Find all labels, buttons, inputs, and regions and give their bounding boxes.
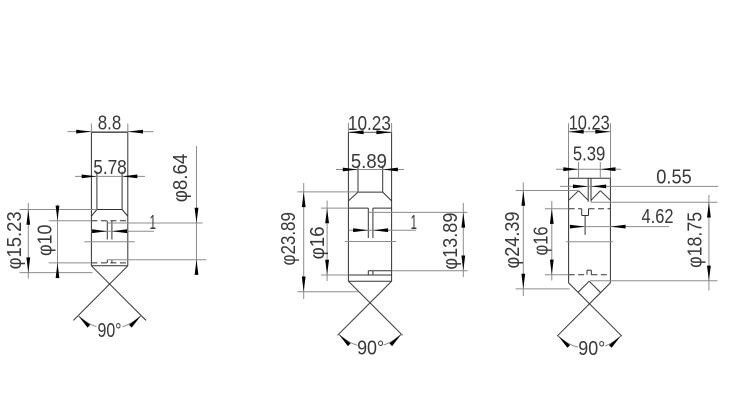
fig3 dim phi18.75 text	[685, 212, 707, 268]
fig3 dim phi16 arrows	[550, 209, 554, 224]
fig2 internal bottom line	[348, 274, 391, 276]
fig2 mid line	[345, 241, 396, 243]
svg-text:90°: 90°	[578, 338, 605, 360]
fig1 dim 90 arrows	[78, 316, 90, 328]
svg-text:φ16: φ16	[530, 227, 552, 256]
fig3 dim 10.23 arrows	[569, 130, 584, 134]
fig1 thread inner lines	[96, 172, 98, 210]
fig3 dim phi18.75 line	[708, 195, 710, 291]
fig3 mid line	[566, 241, 613, 243]
svg-text:φ23.89: φ23.89	[278, 212, 300, 265]
fig3 center bore line	[584, 216, 586, 235]
fig2 internal top line	[348, 207, 368, 209]
fig3 dim phi18.75 arrows	[707, 202, 711, 217]
fig3 dim 90 arrows	[558, 336, 570, 348]
fig3 cone notch	[578, 281, 589, 292]
fig2 dim 90 arrows	[339, 334, 351, 346]
fig2 cone lines	[348, 281, 402, 335]
fig1 dim phi10 line	[57, 205, 59, 278]
svg-text:5.78: 5.78	[93, 157, 127, 179]
fig3 dim 90 arc	[558, 336, 621, 349]
fig1 dim phi10 ext	[49, 220, 92, 222]
fig2 dim 90 arc	[339, 334, 402, 347]
fig3 slot lines	[587, 178, 589, 202]
svg-text:φ8.64: φ8.64	[170, 154, 192, 203]
svg-text:φ13.89: φ13.89	[440, 213, 462, 270]
svg-text:5.39: 5.39	[573, 144, 606, 166]
fig2 thread inner lines	[357, 166, 359, 193]
fig2 dim 90 textbg	[358, 338, 384, 356]
svg-text:φ18.75: φ18.75	[685, 212, 707, 268]
fig1 dim 8.8 arrows	[76, 130, 91, 134]
svg-text:φ10: φ10	[35, 225, 57, 256]
fig3 body outline	[569, 177, 611, 179]
fig3 dim 5.39 line	[556, 168, 621, 170]
fig2 dim 5.89 arrows	[343, 168, 358, 172]
fig2 dim phi13.89 ext	[392, 270, 468, 272]
svg-text:5.89: 5.89	[351, 151, 387, 173]
fig2 dim phi13.89 arrows	[461, 212, 465, 227]
fig1 bore step	[106, 260, 108, 263]
fig3 dim phi16 line	[551, 201, 553, 281]
svg-text:1: 1	[411, 212, 418, 234]
fig2 dim phi23.89 ext	[297, 191, 358, 193]
fig1 dim 5.78 line	[75, 175, 145, 177]
fig3 dim phi18.75 ext	[591, 201, 718, 203]
fig2 dim 1 arrows	[353, 228, 368, 232]
fig2 dim 10.23 line	[348, 131, 391, 133]
fig1 dim phi8.64 line	[196, 146, 198, 268]
svg-text:90°: 90°	[357, 338, 384, 360]
fig1 dim phi10 arrows	[56, 206, 60, 221]
fig1 dim phi8.64 arrows	[195, 208, 199, 223]
svg-text:0.55: 0.55	[656, 166, 692, 188]
fig1 dim phi15.23 ext	[20, 209, 97, 211]
fig1 dim 8.8 line	[68, 131, 154, 133]
fig3 cone lines	[569, 283, 622, 336]
fig3 dim 0.55 arrows	[573, 185, 588, 189]
fig1 dim 1 arrows	[92, 229, 107, 233]
fig3 vee profile right	[591, 191, 600, 201]
fig3 vee profile left	[569, 191, 579, 201]
svg-text:φ15.23: φ15.23	[4, 211, 26, 269]
fig2 dim phi16 ext	[321, 207, 348, 209]
fig3 dim phi24.39 ext	[516, 190, 579, 192]
fig2 body outline	[348, 132, 391, 134]
fig2 dim phi16 arrows	[325, 208, 329, 223]
fig2 dim phi16 text	[307, 226, 329, 259]
fig2 dim 1 leader	[368, 211, 467, 213]
fig1 dim 90 textbg	[97, 319, 123, 337]
fig3 dim 90 textbg	[578, 340, 605, 358]
fig1 dim phi10 text	[35, 225, 57, 256]
fig1 dim 90 arc	[78, 316, 141, 329]
fig1 shoulder and chamfers	[97, 209, 122, 211]
fig3 dim 0.55 line	[560, 185, 718, 187]
fig3 dim 4.62 arrows	[570, 225, 585, 229]
fig1 dim phi8.64 ext	[107, 259, 206, 261]
svg-text:4.62: 4.62	[642, 206, 674, 228]
fig1 dim phi15.23 text	[4, 211, 26, 269]
fig2 dim 1 line	[348, 229, 416, 231]
fig3 dim phi16 text	[530, 227, 552, 256]
svg-text:8.8: 8.8	[98, 113, 122, 135]
fig2 dim phi23.89 arrows	[302, 192, 306, 207]
fig3 dim phi24.39 arrows	[521, 191, 525, 206]
fig3 dim phi24.39 text	[502, 212, 524, 269]
fig3 dim phi24.39 line	[522, 183, 524, 297]
fig1 dim 1 line	[91, 230, 154, 232]
fig1 cone lines	[91, 266, 146, 321]
fig1 dim 1 leader	[107, 222, 202, 224]
fig3 dim 5.39 arrows	[563, 167, 578, 171]
fig2 dim 5.89 line	[336, 169, 404, 171]
svg-text:1: 1	[149, 212, 156, 234]
fig1 hidden line lower	[91, 262, 127, 264]
fig1 bore lines	[106, 221, 108, 240]
fig2 dim phi23.89 text	[278, 212, 300, 265]
fig3 hidden line upper	[569, 208, 582, 210]
fig1 dim phi15.23 line	[27, 203, 29, 279]
fig1 dim phi15.23 arrows	[26, 210, 30, 225]
svg-text:10.23: 10.23	[569, 113, 610, 135]
fig2 dim phi23.89 line	[303, 183, 305, 299]
fig2 shoulder and chamfers	[358, 191, 383, 193]
svg-text:φ24.39: φ24.39	[502, 212, 524, 269]
fig1 mid line	[84, 241, 134, 243]
svg-text:90°: 90°	[98, 320, 122, 342]
fig1 dim phi8.64 text	[170, 154, 192, 203]
fig3 dim 10.23 line	[569, 131, 611, 133]
fig1 hidden line upper	[91, 220, 127, 222]
fig3 dim 4.62 line	[574, 226, 669, 228]
fig1 body outline	[91, 131, 127, 133]
svg-text:φ16: φ16	[307, 226, 329, 259]
svg-text:10.23: 10.23	[348, 113, 391, 135]
fig2 dim phi13.89 text	[440, 213, 462, 270]
fig2 dim 10.23 arrows	[348, 130, 363, 134]
fig1 dim 5.78 arrows	[82, 175, 97, 179]
fig3 hidden line lower	[569, 274, 587, 276]
fig2 dim phi16 line	[326, 201, 328, 282]
fig3 dim phi16 ext	[545, 208, 569, 210]
fig2 dim phi13.89 line	[462, 203, 464, 277]
fig2 bore lines	[367, 208, 369, 238]
